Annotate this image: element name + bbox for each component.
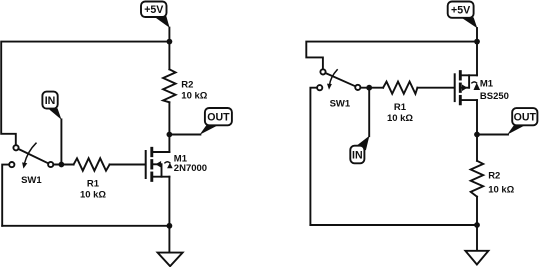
switch SW1 (left): throw-to-+5V terminal xyxy=(13,145,18,150)
wire: M1 source to bottom rail xyxy=(168,177,170,226)
wire: OUT node stub xyxy=(169,134,200,136)
ground (left) xyxy=(158,253,183,267)
svg-text:SW1: SW1 xyxy=(21,175,42,186)
junction node B (switch / IN / R1) xyxy=(366,85,372,91)
switch SW1 (right): lever xyxy=(325,73,355,86)
svg-text:M1: M1 xyxy=(480,78,494,89)
svg-text:10 kΩ: 10 kΩ xyxy=(80,190,106,201)
wire: switch SW1 pole to node B xyxy=(360,87,383,89)
wire: right bottom node to ground xyxy=(476,225,478,251)
wire: node B to IN tail xyxy=(368,88,370,137)
svg-text:R1: R1 xyxy=(394,102,407,113)
resistor R1 (right, horizontal) xyxy=(383,82,417,94)
resistor R2 (left, vertical) xyxy=(163,69,176,102)
wire: left circuit top rail xyxy=(1,42,169,146)
label pointer M1 (right) xyxy=(472,82,480,90)
svg-text:+5V: +5V xyxy=(451,5,470,17)
wire: left circuit bottom rail xyxy=(2,225,169,227)
junction node A (IN / switch / R1) xyxy=(59,162,65,168)
svg-text:10 kΩ: 10 kΩ xyxy=(181,91,207,102)
wire: R1 to M1 gate (right) xyxy=(417,87,453,89)
wire: left circuit lower-left ground branch xyxy=(2,165,9,226)
svg-text:2N7000: 2N7000 xyxy=(174,163,207,174)
svg-text:IN: IN xyxy=(352,149,363,161)
svg-text:OUT: OUT xyxy=(207,112,230,124)
switch SW1 (right): toggle arrow xyxy=(327,70,337,90)
label pointer M1 (left) xyxy=(165,162,173,168)
wire: left +5V node to R2 xyxy=(168,42,170,70)
net label IN (left) xyxy=(42,92,61,120)
net label +5V (right) xyxy=(448,2,478,29)
wire: node A to IN tail xyxy=(60,119,62,164)
wire: R1 to M1 gate xyxy=(110,164,145,166)
junction node: right bottom rail xyxy=(474,222,480,228)
switch SW1 (right): throw-to-+5V terminal xyxy=(320,69,325,74)
switch SW1 (right): throw-to-GND terminal xyxy=(317,85,322,90)
svg-text:SW1: SW1 xyxy=(330,98,351,109)
resistor R1 (left, horizontal) xyxy=(74,158,110,170)
svg-text:10 kΩ: 10 kΩ xyxy=(488,185,514,196)
svg-text:10 kΩ: 10 kΩ xyxy=(387,113,413,124)
transistor M1 BS250 (PMOS) xyxy=(455,72,477,104)
wire: M1 drain to OUT node (right) xyxy=(476,100,478,134)
svg-text:OUT: OUT xyxy=(514,112,537,124)
junction node: left +5V rail xyxy=(167,39,173,45)
net label IN (right) xyxy=(350,136,369,164)
svg-text:R2: R2 xyxy=(488,170,500,181)
switch SW1 (left): pole terminal xyxy=(48,162,53,167)
svg-text:BS250: BS250 xyxy=(480,91,509,102)
wire: right circuit +5V drop xyxy=(476,28,478,42)
wire: switch SW1 pole to node A xyxy=(53,164,73,166)
wire: OUT node to R2 (right) xyxy=(476,135,478,161)
junction node: right OUT xyxy=(474,132,480,138)
wire: right circuit top rail xyxy=(306,42,477,70)
resistor R2 (right, vertical) xyxy=(471,161,484,197)
svg-text:R1: R1 xyxy=(87,179,100,190)
wire: R2 to bottom rail (right) xyxy=(476,197,478,225)
wire: right circuit bottom rail xyxy=(310,224,477,226)
switch SW1 (left): throw-to-GND terminal xyxy=(9,162,14,167)
wire: left circuit +5V drop xyxy=(168,28,170,42)
wire: left bottom node to ground xyxy=(168,226,170,253)
junction node: left bottom rail xyxy=(167,223,173,229)
net label OUT (left) xyxy=(200,108,232,135)
wire: +5V node to M1 source (right) xyxy=(476,42,478,76)
svg-text:IN: IN xyxy=(45,95,56,107)
svg-text:+5V: +5V xyxy=(144,4,163,16)
junction node: left OUT xyxy=(167,132,173,138)
switch SW1 (left): toggle arrow xyxy=(22,143,36,168)
junction node: right +5V rail xyxy=(474,39,480,45)
wire: right circuit lower-left ground branch xyxy=(310,88,317,225)
wire: R2 to OUT node xyxy=(168,102,170,134)
wire: OUT node to M1 drain xyxy=(168,135,170,153)
net label +5V (left) xyxy=(141,2,170,28)
transistor M1 2N7000 (NMOS) xyxy=(146,148,170,180)
net label OUT (right) xyxy=(507,108,537,135)
ground (right) xyxy=(465,251,488,265)
switch SW1 (left): lever xyxy=(18,149,48,164)
svg-text:R2: R2 xyxy=(181,79,193,90)
wire: right OUT node stub xyxy=(477,134,508,136)
switch SW1 (right): pole terminal xyxy=(355,85,360,90)
